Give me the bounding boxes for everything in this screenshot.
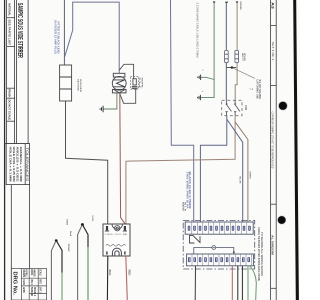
svg-text:5982/3M: 5982/3M xyxy=(30,287,32,296)
svg-text:SEE PARTS LIST: SEE PARTS LIST xyxy=(7,19,11,45)
switch SW1 box dashed xyxy=(222,100,242,115)
grid cell texts xyxy=(22,269,42,296)
wire W23 green curve xyxy=(250,266,256,300)
svg-text:LEVEL: LEVEL xyxy=(91,216,93,223)
TS2 screw marks xyxy=(188,257,250,262)
connector X1 3-cell box xyxy=(60,65,72,101)
punch hole lower xyxy=(278,216,286,224)
svg-text:SHT 1 OF 1: SHT 1 OF 1 xyxy=(271,42,275,62)
wire W2 plug lead blue to motor xyxy=(65,2,120,73)
splice F2 xyxy=(235,50,239,62)
svg-text:R.PELL: R.PELL xyxy=(25,269,27,277)
splice F1 xyxy=(225,50,229,62)
svg-text:9-28Vdc: 9-28Vdc xyxy=(105,234,114,236)
wire G2 branch xyxy=(201,77,214,79)
wire W19 red below TS2 xyxy=(231,266,233,300)
wire W1 plug lead grey xyxy=(63,0,65,65)
svg-text:4/6/15: 4/6/15 xyxy=(33,269,36,277)
SSR ratings text xyxy=(105,233,129,236)
junction link bar xyxy=(227,67,237,69)
svg-text:BROWN: BROWN xyxy=(239,2,241,10)
probe B tip dot xyxy=(55,239,58,242)
SSR center screw housing xyxy=(112,224,123,229)
scan edge black bar xyxy=(293,0,299,300)
svg-text:BUTT: BUTT xyxy=(241,53,243,62)
wire W6 blue vertical to strip xyxy=(171,0,194,225)
switch pole 2 xyxy=(234,100,240,115)
svg-text:DO NOT SCALE: DO NOT SCALE xyxy=(7,100,11,121)
sheet border left xyxy=(4,0,6,300)
label snubber xyxy=(138,78,142,90)
ground G3 symbol xyxy=(198,95,201,100)
wire W8 mains blue xyxy=(225,2,227,100)
svg-text:A3: A3 xyxy=(270,2,274,9)
label splices xyxy=(241,53,245,62)
svg-text:SHT 1: SHT 1 xyxy=(39,287,41,293)
snubber RC box dashed xyxy=(130,76,138,89)
DRG No grid xyxy=(11,269,46,300)
svg-text:BRN: BRN xyxy=(249,172,251,180)
enclosure dash-dot box xyxy=(183,220,255,269)
SSR terminal left xyxy=(106,226,108,230)
svg-text:DATE: DATE xyxy=(30,269,33,275)
wire W11 switch brown to SSR xyxy=(126,116,235,225)
svg-text:SCALE: SCALE xyxy=(39,269,42,276)
svg-text:AL 5982/3M: AL 5982/3M xyxy=(271,235,275,256)
note switch (4 columns tiny text) xyxy=(255,80,261,100)
svg-text:TOLERANCES: TOLERANCES xyxy=(25,147,29,182)
svg-text:COPYRIGHT SAMPIC LTD NOT TO BE: COPYRIGHT SAMPIC LTD NOT TO BE REPRODUCE… xyxy=(271,112,275,169)
svg-text:SUPR.: SUPR. xyxy=(140,78,142,90)
right info column lines xyxy=(271,0,277,300)
svg-text:DRG No.: DRG No. xyxy=(12,272,18,296)
note plug (blue text 2 columns) xyxy=(54,20,61,54)
svg-text:TEMP: TEMP xyxy=(67,244,69,253)
svg-text:GENERAL + 0.5 MM: GENERAL + 0.5 MM xyxy=(19,147,23,183)
motor M letter (rotated M) xyxy=(113,80,125,87)
switch pole 1 xyxy=(226,100,232,115)
wire W18 below TS2 xyxy=(194,266,196,300)
label TS1 left xyxy=(181,202,185,212)
motor M1 xyxy=(112,73,126,93)
tolerances box xyxy=(6,144,29,185)
svg-text:CABLE TIE BASES FITTED INSIDE: CABLE TIE BASES FITTED INSIDE ENCLOSURE xyxy=(257,227,260,281)
wire W14 SSR black out xyxy=(106,256,108,300)
SSR U1 box xyxy=(103,224,130,256)
ground G1 symbol xyxy=(100,106,103,113)
title block column lines xyxy=(5,0,30,144)
snubber wire bottom loop xyxy=(120,89,136,104)
svg-text:5982: 5982 xyxy=(66,219,68,226)
TS2 cells xyxy=(192,254,251,266)
svg-text:APPD: APPD xyxy=(22,287,25,293)
punch hole upper xyxy=(279,102,287,110)
svg-text:FINISH: FINISH xyxy=(7,89,11,97)
wire W12 branch blue diag to strip xyxy=(227,119,243,225)
snubber wire top branch xyxy=(119,64,133,78)
svg-text:RED: RED xyxy=(128,270,131,276)
ground G3 tick xyxy=(202,91,203,93)
SSR mounting arch xyxy=(112,248,121,256)
svg-text:CHKD: CHKD xyxy=(22,279,24,285)
svg-text:BLUE: BLUE xyxy=(239,177,241,185)
probe B green tail xyxy=(61,273,63,300)
TS1 screw marks xyxy=(188,226,251,231)
wire W21 black below TS2 xyxy=(241,266,243,300)
svg-text:FITTED TO BLACK LEAD: FITTED TO BLACK LEAD xyxy=(56,22,60,54)
junction dot xyxy=(231,66,234,69)
wire W15 SSR red out xyxy=(126,256,128,300)
svg-text:IN L-N: IN L-N xyxy=(184,202,186,212)
note W6 (blue text 2 columns) xyxy=(186,172,193,209)
wire W3 connector to SSR xyxy=(66,101,108,224)
svg-text:DRAWN: DRAWN xyxy=(22,269,25,277)
svg-text:SAMPIC SOUS VIDE STIRRER: SAMPIC SOUS VIDE STIRRER xyxy=(16,3,23,58)
label probe B xyxy=(67,231,72,252)
terminal ticks mains xyxy=(213,1,238,3)
svg-text:7: 7 xyxy=(249,88,254,91)
probe B body xyxy=(51,241,55,300)
svg-text:NTS: NTS xyxy=(39,279,41,284)
svg-text:TO SECURE ALL WIRING SHOWN: TO SECURE ALL WIRING SHOWN xyxy=(260,232,263,276)
snubber resistor xyxy=(133,79,136,85)
svg-text:ISS 1: ISS 1 xyxy=(30,279,32,285)
svg-text:0.1uF: 0.1uF xyxy=(138,78,140,90)
ground G2 symbol xyxy=(198,75,201,80)
wire W7 earth green vertical xyxy=(201,2,215,97)
cable clamp symbol xyxy=(190,235,201,243)
svg-text:SPLICE: SPLICE xyxy=(243,53,245,62)
svg-text:LATCHING SW.: LATCHING SW. xyxy=(255,80,258,100)
leader line to note xyxy=(233,68,255,79)
terminal strip TS2 box xyxy=(187,254,254,266)
svg-text:MATERIAL: MATERIAL xyxy=(7,3,11,16)
SSR logo squiggle xyxy=(106,244,126,246)
terminal strip TS1 box xyxy=(185,222,253,234)
svg-text:BLACK FLEX 0.75MM: BLACK FLEX 0.75MM xyxy=(188,172,192,209)
wire W13 branch brown diag to strip xyxy=(235,122,248,225)
svg-text:5A DP MAINS: 5A DP MAINS xyxy=(258,80,261,100)
TS1 cells xyxy=(192,222,247,234)
link circle symbol xyxy=(212,246,216,250)
svg-text:HOLDER: HOLDER xyxy=(79,79,81,93)
wire W16 motor red to SSR xyxy=(120,93,126,224)
snubber capacitor xyxy=(132,87,138,89)
label X1 xyxy=(77,79,81,93)
probe A tip dot xyxy=(81,223,84,226)
svg-text:NO: NO xyxy=(244,105,248,111)
SSR center screw xyxy=(115,226,120,231)
svg-text:BLK: BLK xyxy=(108,270,111,276)
SSR terminal right xyxy=(124,226,126,230)
wire W9 mains brown xyxy=(235,2,237,100)
ground G2 tick xyxy=(202,69,203,71)
lower title strip verticals xyxy=(11,185,29,300)
svg-text:3 CORE MAINS CABLE 1.5M LONG 0: 3 CORE MAINS CABLE 1.5M LONG 0.75MM xyxy=(195,3,199,58)
probe A body xyxy=(78,225,82,300)
svg-text:ISSUE 1: ISSUE 1 xyxy=(33,287,35,297)
wire W20 black below TS2 xyxy=(237,266,239,300)
SSR bottom terminal right xyxy=(124,251,126,254)
wire W10 switch blue to strip xyxy=(200,116,226,225)
link wires to TS2 xyxy=(194,248,234,255)
wire W22 green below TS2 xyxy=(247,266,249,300)
note cable tie xyxy=(257,227,263,281)
SSR bottom terminal left xyxy=(106,251,108,254)
ground G1 wire green xyxy=(103,92,117,109)
